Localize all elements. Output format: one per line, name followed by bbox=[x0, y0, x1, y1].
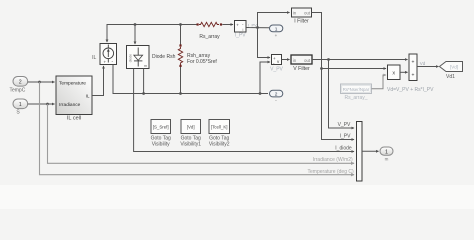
inport 1 S bbox=[13, 99, 28, 109]
svg-text:1: 1 bbox=[275, 26, 278, 32]
connection port 2 (-) bbox=[270, 90, 283, 97]
svg-text:For 0.05*Sref: For 0.05*Sref bbox=[187, 59, 217, 65]
svg-text:Visibility: Visibility bbox=[152, 141, 170, 147]
wire top bus bbox=[107, 24, 197, 27]
svg-text:Vd=V_PV + Rs*I_PV: Vd=V_PV + Rs*I_PV bbox=[387, 87, 434, 93]
svg-text:TempC: TempC bbox=[9, 88, 25, 94]
wire IL cell output to current source input bbox=[92, 66, 104, 96]
wire constant to product bbox=[372, 75, 387, 89]
wire V_PV to V Filter bbox=[282, 59, 290, 61]
svg-text:[Tcell_K]: [Tcell_K] bbox=[211, 125, 228, 130]
svg-text:2: 2 bbox=[19, 80, 22, 86]
junction diode top bbox=[134, 23, 137, 26]
block V Filter bbox=[291, 55, 312, 64]
svg-text:Temperature: Temperature bbox=[59, 80, 86, 86]
inport 2 TempC bbox=[13, 77, 28, 87]
svg-text:Vd: Vd bbox=[420, 61, 426, 66]
wire product to sum bbox=[400, 71, 408, 73]
junction S branch bbox=[46, 103, 49, 106]
svg-text:[Vd]: [Vd] bbox=[187, 125, 195, 130]
bottom lighter strip bbox=[0, 185, 474, 209]
svg-text:+: + bbox=[412, 60, 415, 66]
svg-text:+: + bbox=[104, 60, 107, 65]
goto tag visibility S_Sref bbox=[151, 120, 171, 134]
svg-text:Vd1: Vd1 bbox=[446, 74, 455, 80]
mux bbox=[357, 122, 363, 182]
svg-text:x: x bbox=[392, 71, 395, 77]
wire I_PV branch to mux bbox=[322, 69, 355, 140]
junction diode bottom bus bbox=[142, 92, 145, 95]
wire TempC to mux Temperature (long route) bbox=[40, 82, 355, 175]
wire node P up to I Filter bbox=[258, 13, 290, 28]
goto tag visibility Tcell_K bbox=[209, 120, 230, 134]
junction node P bbox=[256, 26, 259, 29]
current source IL bbox=[100, 44, 117, 66]
voltage sensor V_PV bbox=[272, 55, 282, 66]
svg-text:-: - bbox=[275, 98, 277, 104]
goto [Vd] bbox=[440, 62, 463, 72]
svg-text:V_PV: V_PV bbox=[270, 67, 283, 73]
wire sum to goto Vd bbox=[417, 66, 439, 68]
svg-text:out: out bbox=[304, 58, 311, 63]
svg-text:i: i bbox=[243, 27, 244, 32]
svg-text:[S_Sref]: [S_Sref] bbox=[153, 125, 169, 130]
svg-text:+: + bbox=[412, 73, 415, 79]
wire Rs_array to current sensor bbox=[222, 24, 233, 26]
svg-text:S: S bbox=[16, 110, 20, 116]
current sensor I_PV bbox=[235, 21, 247, 33]
diode block Diode Rsh bbox=[127, 46, 150, 69]
constant Rs*Nser/Npar bbox=[341, 84, 372, 94]
wire V_PV branch to mux bbox=[329, 60, 355, 129]
junction TempC branch bbox=[38, 81, 41, 84]
svg-text:1: 1 bbox=[385, 150, 388, 156]
svg-text:IL: IL bbox=[92, 55, 96, 61]
svg-text:I_PV: I_PV bbox=[235, 33, 247, 39]
svg-text:Rs*Nser/Npar: Rs*Nser/Npar bbox=[343, 87, 370, 92]
svg-text:IL: IL bbox=[86, 94, 90, 99]
wire V Filter out to sum bbox=[312, 59, 408, 61]
connection port 1 (+) bbox=[270, 25, 283, 32]
wire top bus to current source bbox=[106, 25, 108, 43]
svg-text:I Filter: I Filter bbox=[294, 19, 309, 25]
svg-text:Visibility2: Visibility2 bbox=[209, 141, 230, 147]
svg-text:Rs_array_: Rs_array_ bbox=[344, 95, 367, 101]
wire mux to outport m bbox=[362, 150, 379, 152]
wire diode m output to mux I_diode bbox=[134, 69, 354, 152]
svg-text:+: + bbox=[236, 23, 239, 28]
wire top bus to diode bbox=[134, 25, 136, 45]
svg-text:I_PV: I_PV bbox=[248, 22, 257, 27]
svg-text:Irradiance: Irradiance bbox=[59, 102, 81, 108]
svg-text:out: out bbox=[304, 11, 311, 16]
wire I Filter out down bbox=[312, 13, 387, 69]
resistor Rsh_array bbox=[178, 25, 182, 94]
product block bbox=[388, 65, 401, 80]
svg-text:V Filter: V Filter bbox=[293, 66, 310, 72]
block I Filter bbox=[292, 8, 312, 17]
svg-text:Visibility1: Visibility1 bbox=[180, 141, 201, 147]
junction I_PV branch bbox=[320, 67, 323, 70]
svg-text:V_PV: V_PV bbox=[338, 122, 351, 128]
svg-text:diode: diode bbox=[128, 54, 132, 62]
svg-text:m: m bbox=[144, 64, 147, 68]
svg-text:+: + bbox=[275, 33, 278, 38]
outport 1 m bbox=[380, 147, 393, 156]
sum block bbox=[409, 54, 417, 81]
resistor Rs_array bbox=[197, 22, 223, 26]
svg-text:I_PV: I_PV bbox=[340, 134, 352, 140]
svg-text:Irradiance (W/m2): Irradiance (W/m2) bbox=[313, 157, 353, 163]
junction Rsh top bbox=[179, 23, 182, 26]
svg-text:[Vd]: [Vd] bbox=[450, 65, 458, 70]
wire node P down to V_PV + bbox=[258, 28, 271, 58]
svg-text:Diode Rsh: Diode Rsh bbox=[152, 54, 176, 60]
svg-text:IL cell: IL cell bbox=[67, 116, 81, 122]
wire S to mux Irradiance (long route) bbox=[48, 104, 355, 163]
goto tag visibility Vd bbox=[181, 120, 201, 134]
svg-text:m: m bbox=[385, 157, 389, 162]
svg-text:Rsh_array: Rsh_array bbox=[187, 53, 211, 59]
wire sensor to node, signal label I_PV bbox=[246, 27, 269, 29]
svg-text:Rs_array: Rs_array bbox=[199, 34, 220, 40]
subsystem IL cell bbox=[56, 76, 92, 115]
svg-text:I_diode: I_diode bbox=[335, 146, 352, 152]
wire current source minus to bottom bus, bus to port 2 bbox=[113, 65, 268, 94]
wire S to IL cell Irradiance bbox=[28, 103, 55, 105]
svg-text:Temperature (deg C): Temperature (deg C) bbox=[308, 169, 354, 175]
wire diode cathode to bottom bus bbox=[143, 69, 145, 94]
svg-text:2: 2 bbox=[275, 92, 278, 98]
wire V_PV - down to bus bbox=[260, 62, 270, 94]
junction Rsh bottom bus bbox=[179, 92, 182, 95]
junction V_PV minus on bus bbox=[259, 92, 262, 95]
junction V_PV branch bbox=[327, 58, 330, 61]
wire TempC to IL cell Temperature bbox=[28, 81, 55, 83]
svg-text:1: 1 bbox=[19, 102, 22, 108]
